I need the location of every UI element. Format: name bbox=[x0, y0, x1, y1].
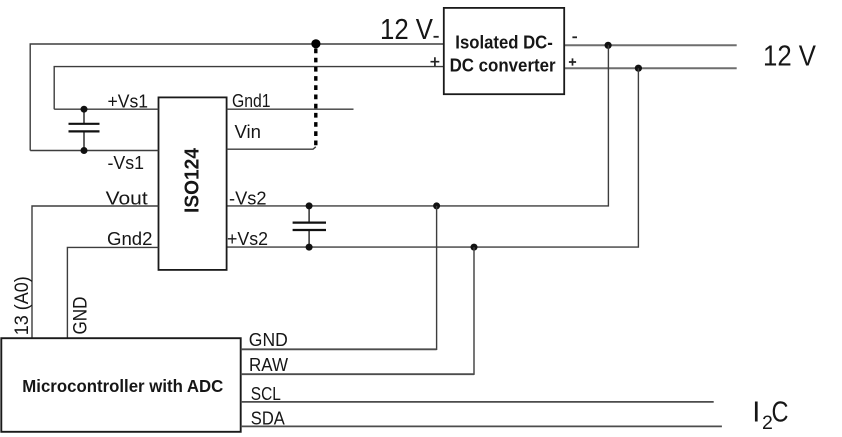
svg-text:Microcontroller with ADC: Microcontroller with ADC bbox=[22, 376, 223, 396]
wire SCL line bbox=[241, 401, 714, 403]
wire +Vs1 pin bbox=[54, 108, 158, 110]
node dot C1 top bbox=[81, 106, 88, 113]
svg-text:+Vs1: +Vs1 bbox=[108, 91, 149, 111]
svg-text:GND: GND bbox=[71, 297, 92, 335]
node dot RAW riser on +Vs2 bbox=[471, 244, 478, 251]
node dot C2 top bbox=[306, 202, 313, 209]
pin label plus left of converter bbox=[431, 57, 440, 66]
node big dot at 12V minus tap bbox=[311, 39, 320, 48]
node junction dot on -12V rail bbox=[605, 42, 612, 49]
svg-text:Gnd1: Gnd1 bbox=[232, 91, 271, 111]
wire SDA line bbox=[241, 425, 722, 427]
wire GND riser bbox=[241, 206, 437, 349]
svg-text:Gnd2: Gnd2 bbox=[107, 229, 153, 249]
svg-text:Vout: Vout bbox=[106, 189, 148, 209]
svg-text:GND: GND bbox=[249, 330, 288, 350]
svg-text:13 (A0): 13 (A0) bbox=[12, 276, 33, 335]
svg-text:C: C bbox=[772, 397, 789, 429]
svg-text:SDA: SDA bbox=[251, 409, 285, 429]
svg-text:+Vs2: +Vs2 bbox=[227, 229, 268, 249]
wire Gnd1 stub bbox=[227, 108, 354, 110]
svg-text:RAW: RAW bbox=[249, 355, 288, 375]
wire riser +Vs2 to +12V rail bbox=[227, 68, 639, 247]
wire Vin pin bbox=[227, 147, 316, 149]
capacitor C2 stubs bbox=[308, 206, 310, 222]
node junction dot on +12V rail bbox=[635, 65, 642, 72]
wire dotted tap down to Vin bbox=[314, 49, 317, 147]
wire RAW pin line bbox=[241, 373, 474, 375]
isolated dc-dc converter box U2 bbox=[444, 8, 564, 94]
svg-text:12 V: 12 V bbox=[763, 41, 817, 73]
pin label plus right of converter bbox=[569, 58, 576, 65]
microcontroller box U3 bbox=[1, 338, 240, 432]
pin label minus right of converter bbox=[572, 36, 577, 38]
svg-text:DC converter: DC converter bbox=[450, 56, 556, 76]
capacitor C1 plates bbox=[69, 123, 100, 125]
wire right +12V rail bbox=[564, 67, 737, 69]
wire -Vs1 pin bbox=[30, 150, 158, 152]
svg-text:-Vs1: -Vs1 bbox=[108, 153, 145, 173]
wire right -12V rail bbox=[564, 44, 737, 46]
svg-text:SCL: SCL bbox=[251, 384, 281, 404]
svg-text:Vin: Vin bbox=[235, 122, 262, 142]
wire Gnd2 pin down to microcontroller bbox=[67, 247, 158, 338]
pin label minus left of converter bbox=[434, 36, 439, 38]
svg-text:-Vs2: -Vs2 bbox=[229, 189, 267, 209]
svg-text:ISO124: ISO124 bbox=[181, 147, 203, 213]
svg-text:12 V: 12 V bbox=[380, 14, 434, 46]
wire RAW riser bbox=[241, 247, 474, 374]
node dot C2 bottom bbox=[306, 244, 313, 251]
capacitor C1 stubs bbox=[83, 109, 85, 123]
wire top-left 12V minus rail bbox=[30, 44, 444, 151]
node dot C1 bottom bbox=[81, 147, 88, 154]
node dot GND riser on -Vs2 bbox=[433, 202, 440, 209]
wire riser -Vs2 to -12V rail bbox=[227, 45, 609, 206]
isolation amplifier U1 ISO124 box bbox=[159, 97, 227, 270]
wire second-left plus rail bbox=[54, 67, 444, 110]
wire Vout pin down to microcontroller bbox=[32, 206, 159, 338]
wire GND pin line bbox=[241, 348, 437, 350]
svg-text:I: I bbox=[752, 396, 760, 428]
svg-text:Isolated DC-: Isolated DC- bbox=[455, 33, 553, 53]
capacitor C2 plates bbox=[293, 222, 326, 224]
